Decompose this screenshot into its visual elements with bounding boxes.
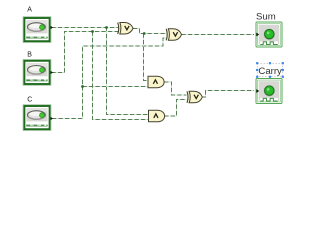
svg-text:A: A	[27, 7, 32, 14]
svg-text:C: C	[27, 97, 32, 104]
svg-text:Sum: Sum	[256, 12, 276, 23]
svg-text:Carry: Carry	[258, 66, 282, 77]
svg-text:B: B	[27, 52, 32, 59]
